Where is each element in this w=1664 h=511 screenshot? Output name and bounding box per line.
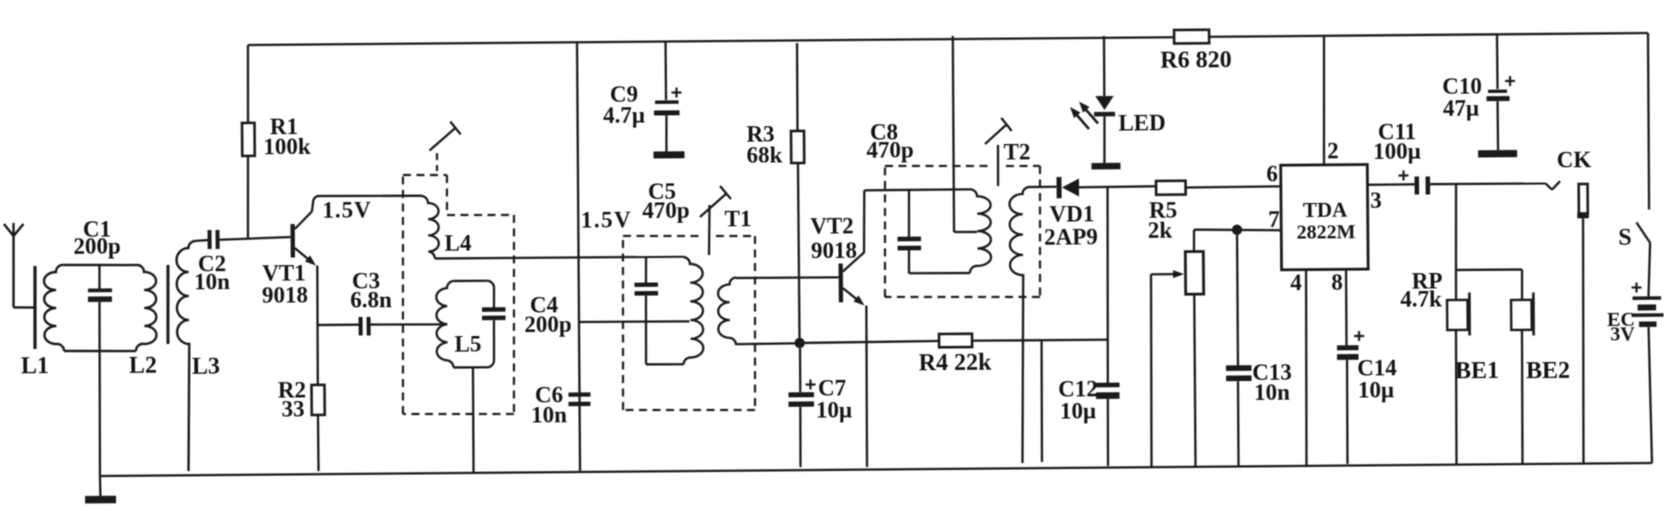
adjustable core arrow for T2: [985, 125, 1007, 144]
wire L5 tank bottom to ground rail: [473, 367, 474, 472]
svg-text:7: 7: [1268, 207, 1280, 232]
svg-text:47μ: 47μ: [1443, 95, 1479, 120]
svg-text:8: 8: [1331, 270, 1343, 295]
svg-text:L3: L3: [192, 354, 220, 380]
wire T2 tank bottom edge: [909, 272, 970, 275]
svg-text:VT2: VT2: [810, 213, 854, 238]
svg-text:10n: 10n: [1254, 380, 1290, 405]
svg-text:R4 22k: R4 22k: [919, 350, 993, 377]
wire node down to C7: [799, 348, 802, 392]
wire to earphones: [1455, 184, 1457, 270]
antenna: [13, 223, 14, 308]
wire L3 to C2: [196, 239, 209, 242]
svg-text:BE2: BE2: [1526, 358, 1570, 384]
L5 tank right edge with capacitor C4 200p: [487, 281, 494, 288]
capacitor C8 470p (T2 tank left edge): [907, 190, 910, 237]
capacitor C6 10n column: [576, 42, 580, 471]
svg-text:10μ: 10μ: [1060, 398, 1096, 423]
transistor VT2 9018: [838, 264, 843, 303]
ground bar: [85, 496, 116, 504]
T1 secondary winding: [718, 278, 737, 346]
IC U1 TDA2822M: [1281, 165, 1368, 270]
svg-text:S: S: [1618, 225, 1632, 251]
svg-text:33: 33: [281, 396, 304, 421]
wire C11 to earphone jack CK: [1430, 183, 1545, 184]
earphone BE2: [1511, 300, 1532, 330]
wire T1 tank bottom edge: [646, 363, 684, 366]
resistor R3 68k: [797, 43, 798, 131]
adjustable core arrow for T1: [700, 193, 727, 217]
svg-text:2AP9: 2AP9: [1044, 224, 1098, 249]
LED indicator: [1103, 36, 1106, 96]
label C9 4.7u electrolytic: [664, 42, 667, 100]
dashed box T1: [623, 235, 702, 236]
T2 primary winding: [969, 189, 991, 273]
svg-text:2k: 2k: [1148, 217, 1173, 242]
capacitor C11 100u electrolytic: [1398, 174, 1408, 176]
wire C1 down to ground rail: [98, 302, 100, 476]
svg-text:T1: T1: [724, 206, 751, 231]
svg-text:L2: L2: [129, 353, 157, 379]
wire C2 to VT1 base: [219, 237, 290, 240]
wire switch to battery +: [1648, 244, 1650, 297]
capacitor C3 6.8n: [359, 317, 363, 336]
wire C7 to ground rail: [799, 407, 802, 467]
resistor R2 33: [311, 385, 324, 415]
dashed box T2: [885, 165, 990, 167]
C9 ground bar: [653, 151, 684, 158]
svg-text:TDA: TDA: [1303, 198, 1348, 222]
svg-text:L1: L1: [21, 353, 49, 379]
volume potentiometer: [1193, 230, 1196, 252]
svg-text:68k: 68k: [746, 142, 782, 167]
earphone jack CK: [1546, 183, 1552, 189]
svg-text:470p: 470p: [642, 198, 690, 223]
wire R5 to pin 6: [1185, 186, 1280, 187]
capacitor C10 47u electrolytic: [1496, 34, 1499, 89]
svg-text:LED: LED: [1118, 110, 1166, 135]
wire L4 to T1 (IF line): [435, 256, 684, 258]
C10 ground bar: [1478, 150, 1517, 158]
inductor L4: [421, 196, 439, 259]
wire stub to ground rail right of T2: [1041, 341, 1043, 462]
svg-text:2822M: 2822M: [1297, 221, 1356, 243]
LED ground bar: [1091, 163, 1120, 170]
svg-text:L5: L5: [454, 331, 481, 356]
diode VD1 2AP9: [1056, 177, 1061, 198]
svg-text:L4: L4: [444, 230, 472, 255]
transformer core bar between L2 and L3: [167, 265, 168, 344]
wire T1 secondary bottom to R4 node: [736, 342, 797, 345]
svg-text:2: 2: [1327, 138, 1339, 163]
pin 2 wire to rail: [1323, 36, 1325, 165]
capacitor C1 200p: [98, 264, 101, 289]
wire R2 to ground rail: [317, 415, 320, 471]
wire right edge down to switch: [1648, 33, 1650, 209]
svg-text:10μ: 10μ: [1358, 377, 1394, 402]
T2 secondary winding: [1009, 187, 1031, 463]
wire R4 line: [802, 341, 939, 343]
wire top supply rail (right segment): [1209, 33, 1648, 37]
svg-text:6.8n: 6.8n: [350, 287, 392, 312]
adjustable core arrow for L4: [436, 153, 438, 171]
wire tank top edge: [64, 264, 136, 265]
svg-text:VD1: VD1: [1050, 201, 1095, 226]
svg-text:1.5V: 1.5V: [322, 197, 372, 222]
wire VT2 collector to T2 tank top: [864, 188, 970, 191]
svg-text:4: 4: [1290, 270, 1302, 295]
wire VT2 emitter to ground rail: [866, 306, 868, 468]
resistor R6 820 in supply rail: [1174, 30, 1209, 44]
resistor R5 2k: [1156, 181, 1186, 195]
svg-text:10n: 10n: [531, 402, 567, 427]
svg-text:100μ: 100μ: [1373, 139, 1421, 164]
potentiometer wiper arrow: [1151, 273, 1174, 275]
T1 primary winding: [683, 257, 704, 365]
wire VD1 to R5: [1079, 186, 1156, 187]
svg-text:3V: 3V: [1610, 323, 1635, 345]
svg-text:9018: 9018: [811, 238, 857, 263]
inductor L5 tank: [436, 281, 454, 368]
wire top supply rail (left segment): [248, 37, 1174, 45]
wire VT1 collector to L4: [317, 195, 422, 196]
wire bottom ground rail: [100, 463, 1652, 476]
switch S: [1636, 222, 1650, 243]
junction dot at pin7 node: [1232, 225, 1242, 235]
wire R4 to C12 column: [972, 340, 1107, 341]
svg-text:9018: 9018: [262, 282, 308, 307]
svg-text:10n: 10n: [194, 269, 230, 294]
inductor L3: [176, 241, 198, 471]
pin 8 wire: [1345, 270, 1348, 346]
capacitor C7 10u electrolytic: [806, 383, 816, 385]
earphone BE1: [1447, 300, 1468, 330]
wire C6 to C5 tank tap: [579, 321, 689, 322]
svg-text:3: 3: [1370, 188, 1382, 213]
capacitor C2 10n: [207, 230, 211, 249]
pin 3 wire: [1367, 183, 1414, 186]
LED light arrows: [1075, 113, 1089, 129]
svg-text:4.7μ: 4.7μ: [603, 102, 645, 127]
wire VT1 emitter down: [317, 266, 319, 386]
inductor L1 (left winding of tank): [44, 265, 65, 351]
svg-text:4.7k: 4.7k: [1400, 286, 1442, 311]
antenna coupling plate: [34, 266, 35, 349]
wire ground stub: [99, 476, 102, 497]
wire T2 secondary top to VD1: [1029, 186, 1056, 189]
pin 4 wire to ground rail: [1305, 270, 1308, 465]
junction node dot: [794, 338, 804, 348]
wire VT2 collector up to T2: [863, 190, 864, 253]
svg-text:200p: 200p: [524, 312, 572, 337]
wire emitter to C3: [317, 324, 358, 327]
wire T2 supply tap from rail: [952, 36, 954, 232]
wire C3 to L5 tap: [370, 324, 446, 325]
pin 7 wire: [1194, 229, 1281, 231]
dashed coupling box around L4/L5: [403, 174, 447, 177]
resistor R4 22k: [939, 334, 972, 348]
svg-text:200p: 200p: [73, 233, 121, 258]
svg-text:100k: 100k: [263, 134, 311, 159]
svg-text:470p: 470p: [866, 137, 914, 162]
battery EC 3V: [1632, 286, 1642, 288]
resistor R1 100k: [247, 45, 248, 123]
wire T1 secondary top to VT2 base: [736, 277, 838, 278]
svg-text:10μ: 10μ: [816, 397, 852, 422]
capacitor C12 10u column: [1106, 186, 1109, 383]
svg-text:BE1: BE1: [1455, 358, 1499, 384]
svg-text:1.5V: 1.5V: [581, 207, 633, 232]
svg-text:6: 6: [1266, 161, 1278, 186]
transistor VT1 9018: [290, 224, 295, 258]
capacitor C14 10u electrolytic: [1354, 335, 1364, 337]
svg-text:CK: CK: [1557, 147, 1592, 172]
capacitor C5 470p (T1 primary tank left edge): [645, 257, 648, 283]
capacitor C13 10n: [1237, 230, 1238, 366]
svg-text:R6 820: R6 820: [1160, 47, 1232, 74]
svg-text:T2: T2: [1003, 139, 1030, 164]
wire battery - to bottom rail: [1649, 327, 1652, 463]
wire tank bottom edge: [64, 350, 136, 351]
inductor L2 (right winding of tank): [135, 265, 156, 351]
